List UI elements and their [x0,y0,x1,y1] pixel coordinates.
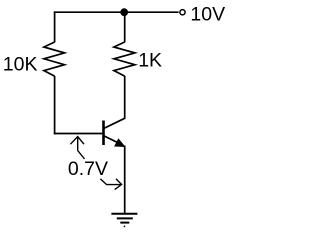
wire: right branch top (junction to R2) [124,12,126,42]
svg-text:10K: 10K [3,53,38,75]
ground symbol bar 1 [111,213,137,215]
resistor R1 10K [44,42,65,76]
ground symbol bar 4 [124,225,126,227]
transistor Q1 base bar [102,121,105,146]
annotation arrow to base wire (open head) [70,137,84,145]
svg-text:0.7V: 0.7V [68,158,108,180]
wire: emitter vertical to ground [124,146,126,214]
wire: left branch bottom (R1 to base corner) [54,76,56,134]
ground symbol bar 2 [117,217,133,219]
svg-text:10V: 10V [190,3,225,25]
wire: top supply rail [54,11,179,13]
annotation arrow to emitter wire (shaft) [100,179,121,185]
transistor Q1 collector diagonal [104,118,125,128]
wire: base wire [54,133,103,135]
node: junction dot [120,8,128,16]
wire: left branch top (rail to R1) [54,11,56,42]
annotation arrow to emitter wire (open head) [115,179,122,190]
transistor Q1 emitter arrowhead [114,138,126,147]
wire: collector vertical (R2 to transistor) [124,76,126,119]
resistor R2 1K [114,42,135,76]
terminal: 10V supply open circle [180,10,185,15]
svg-text:1K: 1K [138,49,162,71]
ground symbol bar 3 [120,222,129,224]
annotation arrow to base wire (shaft) [78,137,85,159]
transistor Q1 emitter diagonal [104,136,119,143]
